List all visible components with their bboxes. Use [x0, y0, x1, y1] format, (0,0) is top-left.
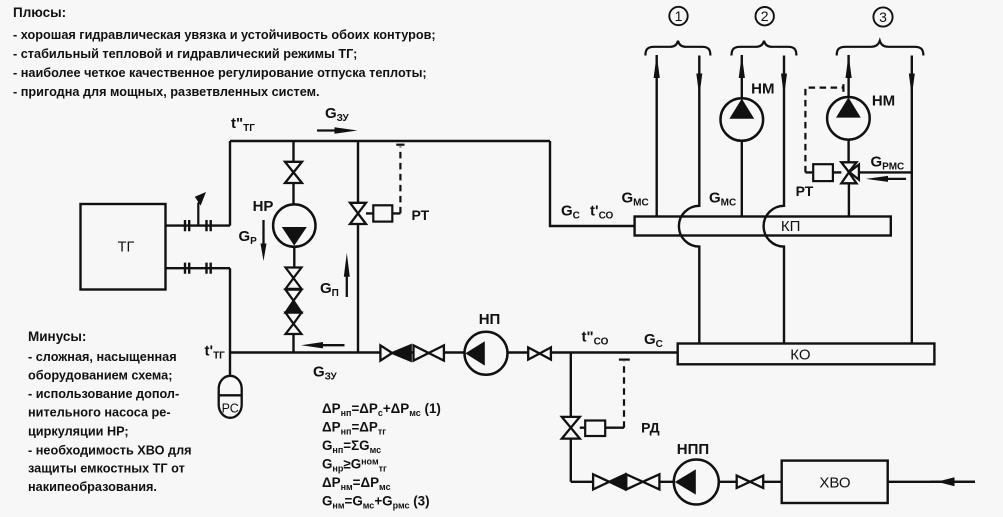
- svg-text:1: 1: [675, 8, 683, 24]
- svg-text:Плюсы:: Плюсы:: [13, 5, 66, 20]
- svg-text:оборудованием схема;: оборудованием схема;: [28, 369, 172, 383]
- svg-text:НП: НП: [479, 311, 501, 328]
- svg-text:- стабильный тепловой и гидрав: - стабильный тепловой и гидравлический р…: [13, 47, 357, 61]
- svg-text:Минусы:: Минусы:: [28, 329, 86, 344]
- svg-text:- сложная, насыщенная: - сложная, насыщенная: [28, 350, 177, 364]
- svg-text:нительного насоса ре-: нительного насоса ре-: [28, 406, 171, 420]
- svg-text:t"ТГ: t"ТГ: [231, 115, 255, 134]
- svg-text:GЗУ: GЗУ: [325, 105, 350, 124]
- svg-text:t'СО: t'СО: [590, 203, 614, 222]
- svg-text:- необходимость ХВО для: - необходимость ХВО для: [28, 444, 192, 458]
- svg-text:2: 2: [761, 8, 769, 24]
- svg-text:РС: РС: [222, 402, 239, 416]
- svg-text:- наиболее четкое качественное: - наиболее четкое качественное регулиров…: [13, 66, 427, 80]
- svg-text:РТ: РТ: [411, 207, 429, 223]
- svg-text:НМ: НМ: [872, 93, 895, 110]
- svg-text:Gнр≥Gномтг: Gнр≥Gномтг: [322, 457, 387, 474]
- svg-text:НПП: НПП: [677, 441, 709, 458]
- svg-text:GС: GС: [561, 203, 580, 222]
- svg-text:ΔРнп=ΔРс+ΔРмс (1): ΔРнп=ΔРс+ΔРмс (1): [322, 401, 441, 418]
- svg-text:ТГ: ТГ: [118, 240, 135, 256]
- svg-text:- использование допол-: - использование допол-: [28, 387, 179, 401]
- svg-text:ΔРнп=ΔРтг: ΔРнп=ΔРтг: [322, 420, 386, 437]
- svg-text:Gнм=Gмс+Gрмс (3): Gнм=Gмс+Gрмс (3): [322, 494, 430, 511]
- svg-text:НМ: НМ: [751, 81, 774, 98]
- svg-text:- хорошая гидравлическая увязк: - хорошая гидравлическая увязка и устойч…: [13, 28, 436, 42]
- svg-text:защиты емкостных ТГ от: защиты емкостных ТГ от: [28, 462, 185, 476]
- svg-text:КП: КП: [781, 218, 801, 235]
- svg-text:GМС: GМС: [709, 190, 736, 209]
- svg-text:ХВО: ХВО: [819, 475, 850, 492]
- svg-text:GЗУ: GЗУ: [313, 364, 338, 383]
- svg-text:t"СО: t"СО: [582, 329, 609, 348]
- svg-text:- пригодна для мощных, разветв: - пригодна для мощных, разветвленных сис…: [13, 85, 320, 99]
- svg-text:GМС: GМС: [622, 190, 649, 209]
- svg-text:GС: GС: [644, 331, 663, 350]
- svg-text:GРМС: GРМС: [871, 154, 905, 173]
- svg-text:3: 3: [879, 9, 887, 25]
- svg-text:циркуляции НР;: циркуляции НР;: [28, 425, 129, 439]
- svg-text:GП: GП: [320, 280, 339, 299]
- svg-text:НР: НР: [253, 198, 274, 215]
- svg-text:Gнп=ΣGмс: Gнп=ΣGмс: [322, 438, 381, 455]
- svg-text:GР: GР: [239, 228, 258, 247]
- svg-text:КО: КО: [790, 347, 810, 364]
- svg-text:ΔРнм=ΔРмс: ΔРнм=ΔРмс: [322, 475, 391, 492]
- svg-text:РТ: РТ: [796, 183, 814, 199]
- svg-text:РД: РД: [641, 420, 659, 436]
- svg-text:накипеобразования.: накипеобразования.: [28, 480, 157, 494]
- svg-text:t'ТГ: t'ТГ: [205, 343, 226, 362]
